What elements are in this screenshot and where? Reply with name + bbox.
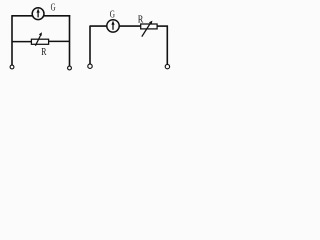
current source G (circle with up arrow) [107,20,119,32]
wire left vertical [89,26,91,64]
terminal (left circuit, left) [10,65,14,69]
wire top-left segment [12,15,33,17]
wire right vertical [69,15,71,66]
wire horizontal to source [90,25,107,27]
wire middle branch right stub [49,40,70,42]
svg-text:R: R [138,13,144,25]
svg-text:G: G [110,8,115,20]
wire from resistor to corner [157,25,168,27]
current source G (circle with up arrow) [32,8,44,20]
wire top-right segment [44,15,71,17]
terminal (right circuit, left) [88,64,92,68]
svg-text:G: G [51,3,56,14]
variable resistor R (right): box with diagonal arrow [141,21,157,37]
wire from source to resistor [119,25,141,27]
terminal (left circuit, right) [68,66,72,70]
wire right vertical [166,26,168,65]
variable resistor R (left): box with diagonal arrow [31,32,48,46]
wire middle branch left stub [12,41,31,43]
terminal (right circuit, right) [165,64,169,68]
svg-text:R: R [41,47,46,58]
wire left vertical [11,15,13,65]
